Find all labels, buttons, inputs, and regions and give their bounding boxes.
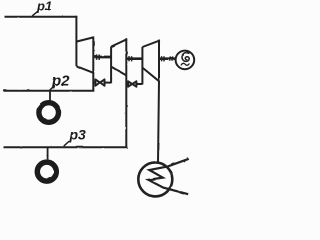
- svg-text:p3: p3: [69, 127, 87, 143]
- svg-text:p2: p2: [51, 72, 70, 89]
- svg-text:p1: p1: [36, 0, 52, 13]
